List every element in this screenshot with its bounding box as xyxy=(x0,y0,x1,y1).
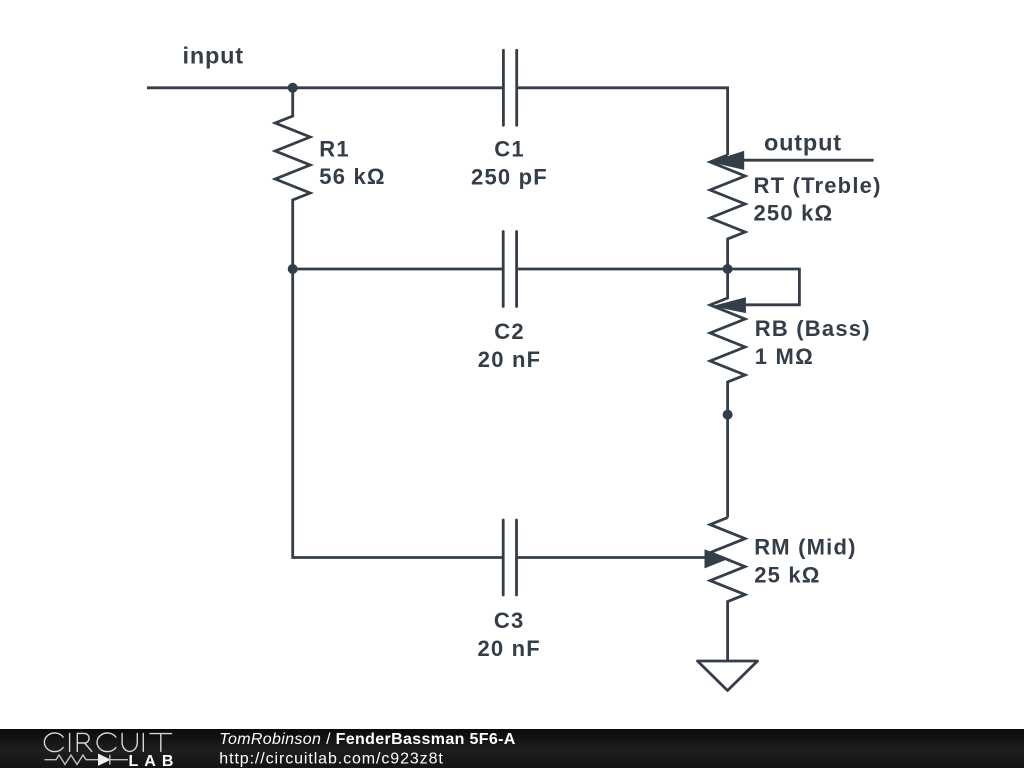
capacitor C3 xyxy=(503,520,516,595)
wire: left branch to C3 xyxy=(293,269,705,558)
logo CIRCUIT wordmark xyxy=(44,733,171,752)
potentiometer RB body xyxy=(710,269,745,415)
node B: left middle junction xyxy=(288,264,298,274)
svg-text:25 kΩ: 25 kΩ xyxy=(754,563,820,588)
label C1 value xyxy=(471,137,548,190)
resistor R1 xyxy=(275,88,310,269)
svg-text:RB (Bass): RB (Bass) xyxy=(755,316,871,341)
svg-text:LAB: LAB xyxy=(129,753,180,768)
svg-text:R1: R1 xyxy=(319,136,350,161)
wire: RB bottom to RM top xyxy=(726,415,729,518)
logo resistor-diode symbol xyxy=(45,755,129,765)
svg-text:20 nF: 20 nF xyxy=(478,347,541,372)
svg-text:C3: C3 xyxy=(494,608,525,633)
wire: output lead xyxy=(744,159,874,162)
wiper arrow of RT xyxy=(710,151,745,170)
potentiometer RM body xyxy=(710,518,745,661)
svg-text:RT (Treble): RT (Treble) xyxy=(754,173,882,198)
capacitor C2 xyxy=(503,232,516,307)
wire: middle net y=269 xyxy=(293,268,728,271)
svg-text:56 kΩ: 56 kΩ xyxy=(319,164,385,189)
capacitor C1 xyxy=(503,50,516,125)
label C2 value xyxy=(478,319,541,372)
wire: RB wiper loop xyxy=(728,269,800,305)
label C3 value xyxy=(477,608,540,661)
label R1 value xyxy=(319,136,385,189)
svg-text:output: output xyxy=(764,130,842,156)
wire: input net horizontal, y=88 xyxy=(147,88,728,155)
svg-text:C1: C1 xyxy=(494,137,525,162)
svg-text:20 nF: 20 nF xyxy=(477,636,540,661)
wiper arrow of RB xyxy=(712,297,746,313)
ground xyxy=(698,661,758,691)
label RT value xyxy=(754,173,882,226)
node C: RT/RB junction xyxy=(723,264,733,274)
svg-text:RM (Mid): RM (Mid) xyxy=(754,535,856,560)
label RB value xyxy=(755,316,871,369)
potentiometer RT body xyxy=(710,155,745,269)
svg-text:http://circuitlab.com/c923z8t: http://circuitlab.com/c923z8t xyxy=(219,751,443,768)
svg-text:1 MΩ: 1 MΩ xyxy=(755,344,814,369)
svg-text:TomRobinson / FenderBassman 5F: TomRobinson / FenderBassman 5F6-A xyxy=(219,731,516,748)
svg-text:C2: C2 xyxy=(494,319,525,344)
label RM value xyxy=(754,535,856,588)
node A: input/R1 junction xyxy=(288,83,298,93)
node D: RB/RM junction xyxy=(723,410,733,420)
footer bar xyxy=(0,729,1024,768)
svg-text:250 pF: 250 pF xyxy=(471,165,548,190)
wiper arrow of RM xyxy=(705,549,730,568)
svg-text:input: input xyxy=(183,43,244,69)
svg-text:250 kΩ: 250 kΩ xyxy=(754,201,834,226)
